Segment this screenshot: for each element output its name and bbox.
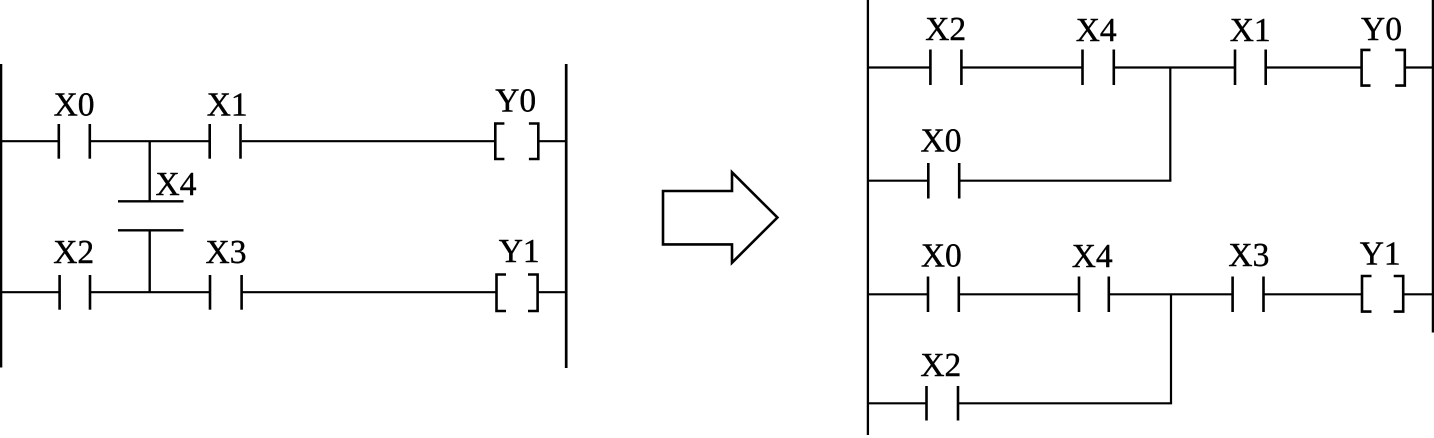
right branch 2 wire bbox=[869, 402, 1172, 404]
svg-text:X3: X3 bbox=[1228, 237, 1269, 274]
contact X3 (left ladder, rung 2) bbox=[210, 275, 242, 310]
svg-text:X2: X2 bbox=[53, 234, 94, 271]
coil Y1 (right ladder, rung 2) bbox=[1362, 276, 1403, 312]
label X2 (right ladder, branch 2) bbox=[920, 347, 961, 384]
transformation arrow bbox=[663, 172, 777, 262]
label X0 (left ladder, rung 1) bbox=[54, 86, 95, 123]
svg-text:X0: X0 bbox=[921, 123, 962, 160]
svg-text:X4: X4 bbox=[1076, 12, 1117, 49]
label Y1 (left ladder, rung 2) bbox=[499, 233, 540, 270]
contact X4 (right ladder, rung 2) bbox=[1079, 277, 1109, 313]
contact X3 (right ladder, rung 2) bbox=[1233, 277, 1264, 313]
contact X0 (right ladder, branch 1) bbox=[928, 163, 959, 199]
coil Y0 (left ladder, rung 1) bbox=[495, 124, 538, 160]
left ladder: left power rail bbox=[0, 64, 2, 368]
left rung 1 wire bbox=[0, 140, 565, 142]
svg-text:X0: X0 bbox=[921, 237, 962, 274]
contact X2 (left ladder, rung 2) bbox=[60, 275, 90, 310]
contact X2 (right ladder, rung 1) bbox=[930, 50, 961, 86]
svg-text:X0: X0 bbox=[54, 86, 95, 123]
junction wire rung1-branch1 bbox=[1169, 68, 1171, 181]
right ladder: left power rail bbox=[867, 0, 869, 435]
label X3 (right ladder, rung 2) bbox=[1228, 237, 1269, 274]
contact X2 (right ladder, branch 2) bbox=[927, 386, 959, 421]
svg-text:X1: X1 bbox=[1230, 12, 1271, 49]
svg-text:X4: X4 bbox=[1072, 238, 1113, 275]
contact X0 (right ladder, rung 2) bbox=[928, 277, 959, 313]
svg-text:X3: X3 bbox=[206, 234, 247, 271]
label X1 (left ladder, rung 1) bbox=[207, 86, 248, 123]
label X0 (right ladder, branch 1) bbox=[921, 123, 962, 160]
right rung 1 wire bbox=[869, 66, 1432, 68]
left rung 2 wire bbox=[0, 291, 565, 293]
label X2 (right ladder, rung 1) bbox=[925, 11, 966, 48]
label X4 (right ladder, rung 2) bbox=[1072, 238, 1113, 275]
label X0 (right ladder, rung 2) bbox=[921, 237, 962, 274]
label Y0 (left ladder, rung 1) bbox=[495, 82, 536, 119]
label X4 (left ladder, bridge) bbox=[156, 166, 197, 203]
contact X4 (right ladder, rung 1) bbox=[1083, 50, 1114, 86]
label Y1 (right ladder, rung 2) bbox=[1360, 236, 1401, 273]
label X2 (left ladder, rung 2) bbox=[53, 234, 94, 271]
label X1 (right ladder, rung 1) bbox=[1230, 12, 1271, 49]
svg-text:Y1: Y1 bbox=[499, 233, 540, 270]
contact X1 (left ladder, rung 1) bbox=[210, 124, 241, 159]
right rung 2 wire bbox=[869, 293, 1432, 295]
label X3 (left ladder, rung 2) bbox=[206, 234, 247, 271]
svg-text:Y0: Y0 bbox=[1361, 11, 1402, 48]
svg-text:Y1: Y1 bbox=[1360, 236, 1401, 273]
contact X1 (right ladder, rung 1) bbox=[1235, 50, 1266, 86]
junction wire rung2-branch2 bbox=[1170, 294, 1172, 403]
right branch 1 wire bbox=[869, 180, 1171, 182]
label Y0 (right ladder, rung 1) bbox=[1361, 11, 1402, 48]
svg-text:X2: X2 bbox=[920, 347, 961, 384]
label X4 (right ladder, rung 1) bbox=[1076, 12, 1117, 49]
svg-text:X2: X2 bbox=[925, 11, 966, 48]
coil Y0 (right ladder, rung 1) bbox=[1362, 50, 1405, 86]
svg-text:Y0: Y0 bbox=[495, 82, 536, 119]
vertical contact X4 (left ladder, bridge between rungs) bbox=[118, 141, 184, 292]
svg-text:X1: X1 bbox=[207, 86, 248, 123]
right ladder: right power rail bbox=[1432, 0, 1434, 333]
left ladder: right power rail bbox=[565, 64, 568, 368]
svg-text:X4: X4 bbox=[156, 166, 197, 203]
contact X0 (left ladder, rung 1) bbox=[59, 124, 90, 159]
coil Y1 (left ladder, rung 2) bbox=[497, 275, 538, 312]
